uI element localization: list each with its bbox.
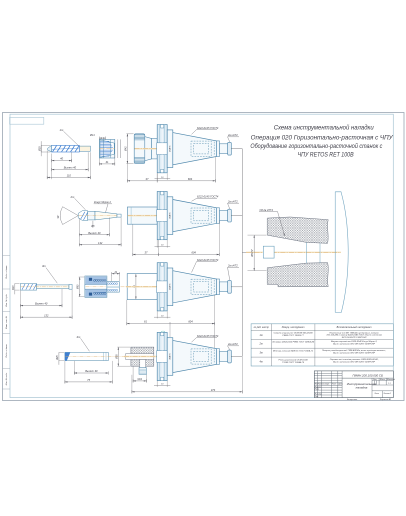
table header texts — [254, 326, 372, 329]
left margin column boxes — [3, 255, 11, 389]
dashed internal thread hole — [191, 141, 214, 156]
svg-text:Подп.: Подп. — [332, 383, 337, 386]
row2 holder cylinder body — [127, 207, 157, 224]
row3 leader label 3t — [42, 264, 57, 283]
holder gauge ring — [167, 197, 173, 235]
row3 tapping chuck body — [85, 276, 126, 297]
svg-text:Вылет 30: Вылет 30 — [85, 369, 98, 373]
row4 leader label 4t — [77, 335, 90, 352]
row1 leader label 1t — [60, 128, 79, 146]
row4 boring bar tool T4 — [65, 352, 125, 360]
svg-text:Лит.: Лит. — [372, 379, 377, 381]
svg-text:Вылет 40: Вылет 40 — [88, 231, 101, 235]
svg-text:Инв. № дубл.: Инв. № дубл. — [5, 293, 8, 306]
svg-text:6222-0145 ГОСТ4: 6222-0145 ГОСТ4 — [197, 334, 219, 338]
svg-text:40АТ5: 40АТ5 — [169, 283, 172, 290]
svg-text:2в кНТ2: 2в кНТ2 — [227, 264, 238, 268]
row3 nose dim 19 — [112, 272, 120, 281]
svg-text:Винт натяжной ЭХЗ ОН 6ЧПУ 13ЖР: Винт натяжной ЭХЗ ОН 6ЧПУ 13ЖРСНР — [333, 352, 376, 355]
svg-text:Подп. и дата: Подп. и дата — [5, 265, 8, 279]
row4 dim 75 — [65, 361, 112, 384]
row4 dim vylet 30 — [74, 361, 108, 375]
row3 chuck diameter dim — [77, 277, 85, 297]
svg-text:Режущ. инструмент: Режущ. инструмент — [282, 327, 305, 329]
sheet background — [3, 113, 405, 401]
machine column wavy break — [335, 192, 348, 313]
row1 drill diameter dim — [38, 141, 50, 156]
holder stud cylinder — [220, 352, 228, 362]
drawing frame — [10, 114, 393, 397]
rows 3-4 shared dims 81 604 — [127, 295, 215, 349]
svg-text:90°: 90° — [57, 215, 60, 219]
svg-text:Копировал: Копировал — [347, 399, 358, 401]
svg-text:40АТ5: 40АТ5 — [169, 353, 172, 360]
holder stud cylinder — [220, 144, 228, 154]
row4 bar diameter dim — [57, 352, 64, 364]
svg-text:1т: 1т — [60, 128, 65, 132]
row2 morse taper label — [94, 201, 112, 212]
row1 dim vylet 40 — [52, 152, 89, 179]
row3 flange width dim — [154, 311, 170, 318]
svg-text:3т: 3т — [259, 352, 262, 355]
holder gauge ring — [167, 268, 173, 306]
svg-text:3т: 3т — [42, 264, 47, 268]
svg-text:2т: 2т — [258, 343, 262, 346]
svg-text:наладка: наладка — [356, 386, 368, 390]
row1 collet ER separate part — [99, 139, 115, 158]
workpiece centerline — [246, 251, 341, 253]
svg-text:ПМИН.200.100.000 СБ: ПМИН.200.100.000 СБ — [353, 373, 383, 377]
svg-text:Ø50: Ø50 — [115, 354, 118, 360]
svg-text:Ø8: Ø8 — [90, 226, 95, 228]
top-left stamp box — [10, 117, 44, 124]
dashed internal thread hole — [191, 208, 214, 223]
svg-text:Винт натяжной ЭХЗ ОН 6ЧПУ 13ЖР: Винт натяжной ЭХЗ ОН 6ЧПУ 13ЖРСНР — [333, 343, 376, 346]
centerline spindle axis — [128, 215, 232, 217]
svg-text:Пров.: Пров. — [315, 389, 320, 391]
leader label holder designation — [192, 126, 219, 135]
holder flange with V-groove — [157, 263, 168, 311]
svg-text:М12: М12 — [138, 379, 143, 381]
svg-text:Ø50Н7: Ø50Н7 — [252, 249, 254, 258]
svg-text:2в кНТ2: 2в кНТ2 — [227, 200, 238, 204]
svg-text:Ø14: Ø14 — [89, 134, 95, 137]
row2 countersink tool T2 — [57, 207, 121, 225]
row3 holder cylinder body — [127, 274, 157, 300]
row4 head diameter dim — [115, 347, 130, 366]
leader label pull stud designation — [227, 133, 239, 142]
svg-text:Ø42: Ø42 — [124, 146, 127, 152]
dashed internal thread hole — [191, 279, 214, 294]
svg-text:604: 604 — [192, 251, 197, 255]
row1 drill tool T1 — [48, 145, 91, 152]
row1 flange width dim — [155, 173, 171, 180]
title block texts — [315, 373, 395, 398]
holder neck ring — [217, 208, 220, 224]
svg-text:40АТ5: 40АТ5 — [169, 212, 172, 219]
svg-text:6222-0145 ГОСТ4: 6222-0145 ГОСТ4 — [197, 126, 219, 130]
row1 dim 110 — [47, 151, 90, 180]
svg-text:Подп. и дата: Подп. и дата — [5, 344, 8, 358]
leader label holder designation — [192, 334, 219, 342]
centerline spindle axis — [135, 148, 232, 150]
row4 boring head block — [126, 347, 154, 366]
pull stud head — [228, 350, 232, 363]
svg-text:4т: 4т — [77, 335, 82, 339]
holder flange with V-groove — [157, 125, 168, 173]
workpiece bore diameter dim — [248, 235, 267, 271]
svg-text:ЧПУ RETOS RET 100В: ЧПУ RETOS RET 100В — [298, 152, 354, 159]
pull stud head — [228, 209, 232, 222]
leader label holder designation — [192, 195, 219, 202]
svg-text:Дата: Дата — [337, 384, 343, 386]
row2 leader label 2t — [70, 195, 86, 210]
holder neck ring — [217, 279, 220, 295]
title block document name — [347, 382, 377, 390]
svg-text:2т: 2т — [70, 195, 76, 199]
row1 dim 40 — [52, 152, 72, 162]
tools list table — [251, 324, 393, 366]
datum mark teal — [161, 331, 165, 335]
holder taper cone shank — [173, 200, 217, 232]
svg-text:Оборудование горизонтально-ра: Оборудование горизонтально-расточной ста… — [250, 143, 382, 150]
svg-text:ЭХЗ ОН 6ЧПУ 13ЖРСНР: ЭХЗ ОН 6ЧПУ 13ЖРСНР — [342, 337, 368, 339]
centerline spindle axis — [126, 286, 232, 288]
svg-text:1:1: 1:1 — [388, 383, 390, 385]
workpiece lower wall section — [267, 263, 328, 287]
svg-text:Масса: Масса — [380, 379, 385, 381]
holder flange with V-groove — [157, 192, 168, 240]
svg-text:Ø63: Ø63 — [77, 284, 80, 290]
svg-text:604: 604 — [188, 177, 193, 181]
row2 flange width dim — [155, 240, 171, 248]
workpiece counterbore lines — [307, 242, 321, 263]
svg-text:№ докум.: № докум. — [322, 383, 330, 386]
svg-text:Т15К6 ГОСТ 10044-73: Т15К6 ГОСТ 10044-73 — [282, 361, 305, 364]
holder taper cone shank — [173, 271, 217, 303]
svg-text:Взам. инв. №: Взам. инв. № — [5, 315, 8, 329]
dashed internal thread hole — [191, 349, 214, 364]
row2 bottom dims 37 604 — [133, 221, 220, 256]
svg-text:110: 110 — [67, 174, 72, 178]
row2 dim 132 — [79, 217, 121, 246]
row1 collet dim labels — [89, 134, 121, 166]
holder flange with V-groove — [157, 332, 168, 380]
row4 taper rotated dim — [169, 353, 172, 360]
svg-text:Вылет 40: Вылет 40 — [35, 302, 48, 306]
svg-text:132: 132 — [98, 241, 103, 245]
leader label pull stud designation — [227, 342, 239, 350]
svg-text:132: 132 — [44, 313, 49, 317]
holder neck ring — [217, 349, 220, 365]
row2 head diameter dim — [90, 221, 95, 228]
row3 dim 132 — [20, 290, 72, 319]
main title block GOST stamp — [314, 371, 393, 398]
pull stud head — [228, 142, 232, 155]
table row texts — [258, 331, 386, 364]
svg-text:Метчик гаечный М24 ОС ГОСТ 160: Метчик гаечный М24 ОС ГОСТ 1604-71 — [273, 349, 314, 352]
row3 tap diameter dim — [13, 284, 20, 295]
row3 dim vylet 40 — [20, 289, 62, 319]
svg-text:Р6М5 ГОСТ 10903-77: Р6М5 ГОСТ 10903-77 — [282, 335, 304, 337]
workpiece upper wall section — [267, 217, 328, 243]
svg-text:№ раб. инстр: № раб. инстр — [254, 326, 270, 329]
pull stud head — [228, 280, 232, 293]
holder taper cone shank — [173, 340, 217, 372]
row4 clamp screw — [139, 360, 147, 375]
svg-text:2в кНТ2: 2в кНТ2 — [227, 342, 238, 346]
holder taper cone shank — [173, 133, 217, 165]
row1 bottom dims 37 604 — [127, 157, 215, 182]
svg-text:1т: 1т — [259, 334, 262, 337]
holder gauge ring — [167, 338, 173, 376]
row3 tap tool T3 — [20, 284, 72, 291]
left margin rotated texts — [5, 265, 8, 385]
row2 taper rotated dim — [169, 212, 172, 219]
leader label pull stud designation — [227, 264, 239, 281]
svg-text:4т: 4т — [259, 361, 262, 364]
connector line linking tool studs to bore axis — [232, 149, 264, 357]
svg-text:Схема инструментальной наладки: Схема инструментальной наладки — [274, 125, 375, 132]
svg-text:Ø35: Ø35 — [38, 146, 41, 152]
leader label holder designation — [192, 258, 219, 273]
svg-text:Масштаб: Масштаб — [387, 379, 395, 381]
row1 taper rotated dim — [169, 145, 172, 152]
svg-text:Ø25: Ø25 — [57, 355, 59, 361]
svg-text:2в кНТ2: 2в кНТ2 — [227, 133, 238, 137]
svg-text:Листов 1: Листов 1 — [383, 393, 392, 395]
svg-text:Винт натяжной ЭХЗ ОН 6ЧПУ 13ЖР: Винт натяжной ЭХЗ ОН 6ЧПУ 13ЖРСНР — [333, 360, 376, 363]
holder stud cylinder — [220, 282, 228, 292]
holder stud cylinder — [220, 211, 228, 221]
workpiece leader label — [259, 209, 285, 236]
svg-text:6222-0145 ГОСТ4: 6222-0145 ГОСТ4 — [197, 258, 219, 262]
svg-text:Вылет 40: Вылет 40 — [64, 166, 77, 170]
svg-text:Операция 020 Горизонтально-рас: Операция 020 Горизонтально-расточная с Ч… — [251, 134, 394, 141]
row1 nut diameter dim — [124, 134, 133, 164]
workpiece tool position square — [263, 246, 274, 258]
row3 tapping chuck nose — [107, 282, 119, 292]
svg-text:Вспомогательный инструмент: Вспомогательный инструмент — [337, 326, 372, 329]
title text block — [250, 125, 393, 159]
svg-text:6222-0145 ГОСТ4: 6222-0145 ГОСТ4 — [197, 195, 219, 199]
svg-text:М20: М20 — [13, 285, 15, 290]
leader label pull stud designation — [227, 200, 239, 210]
svg-text:Утв.: Утв. — [315, 396, 319, 398]
row4 overall length dim 474 — [132, 357, 242, 393]
svg-text:Формат А1: Формат А1 — [380, 398, 391, 401]
holder gauge ring — [167, 130, 173, 168]
below frame notes — [347, 398, 391, 401]
centerline spindle axis — [124, 356, 232, 358]
holder neck ring — [217, 141, 220, 157]
row3 taper rotated dim — [169, 283, 172, 290]
svg-text:Лист: Лист — [374, 393, 380, 395]
svg-text:Зенковка 2353-0112 Р6М5 ГОСТ 1: Зенковка 2353-0112 Р6М5 ГОСТ 14953-80 — [272, 341, 315, 344]
svg-text:Инв. № подл.: Инв. № подл. — [5, 372, 8, 385]
row4 screw dim — [133, 367, 146, 383]
svg-text:40АТ5: 40АТ5 — [169, 145, 172, 152]
row4 flange width dim — [154, 381, 170, 387]
row1 collet chuck nut — [134, 134, 157, 164]
svg-text:604: 604 — [188, 320, 193, 324]
svg-text:474: 474 — [211, 388, 216, 392]
row2 dim vylet 40 — [79, 218, 109, 247]
